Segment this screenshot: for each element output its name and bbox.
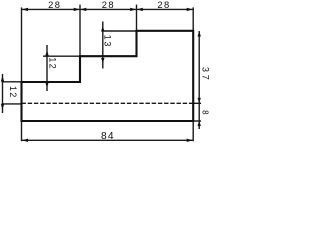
svg-text:13: 13	[102, 35, 112, 48]
svg-text:28: 28	[157, 0, 170, 10]
svg-text:28: 28	[102, 0, 115, 10]
svg-text:84: 84	[101, 131, 115, 142]
svg-text:12: 12	[8, 86, 18, 99]
svg-text:28: 28	[48, 0, 61, 10]
svg-text:12: 12	[47, 57, 57, 70]
svg-text:8: 8	[200, 110, 209, 115]
svg-text:37: 37	[201, 67, 211, 82]
